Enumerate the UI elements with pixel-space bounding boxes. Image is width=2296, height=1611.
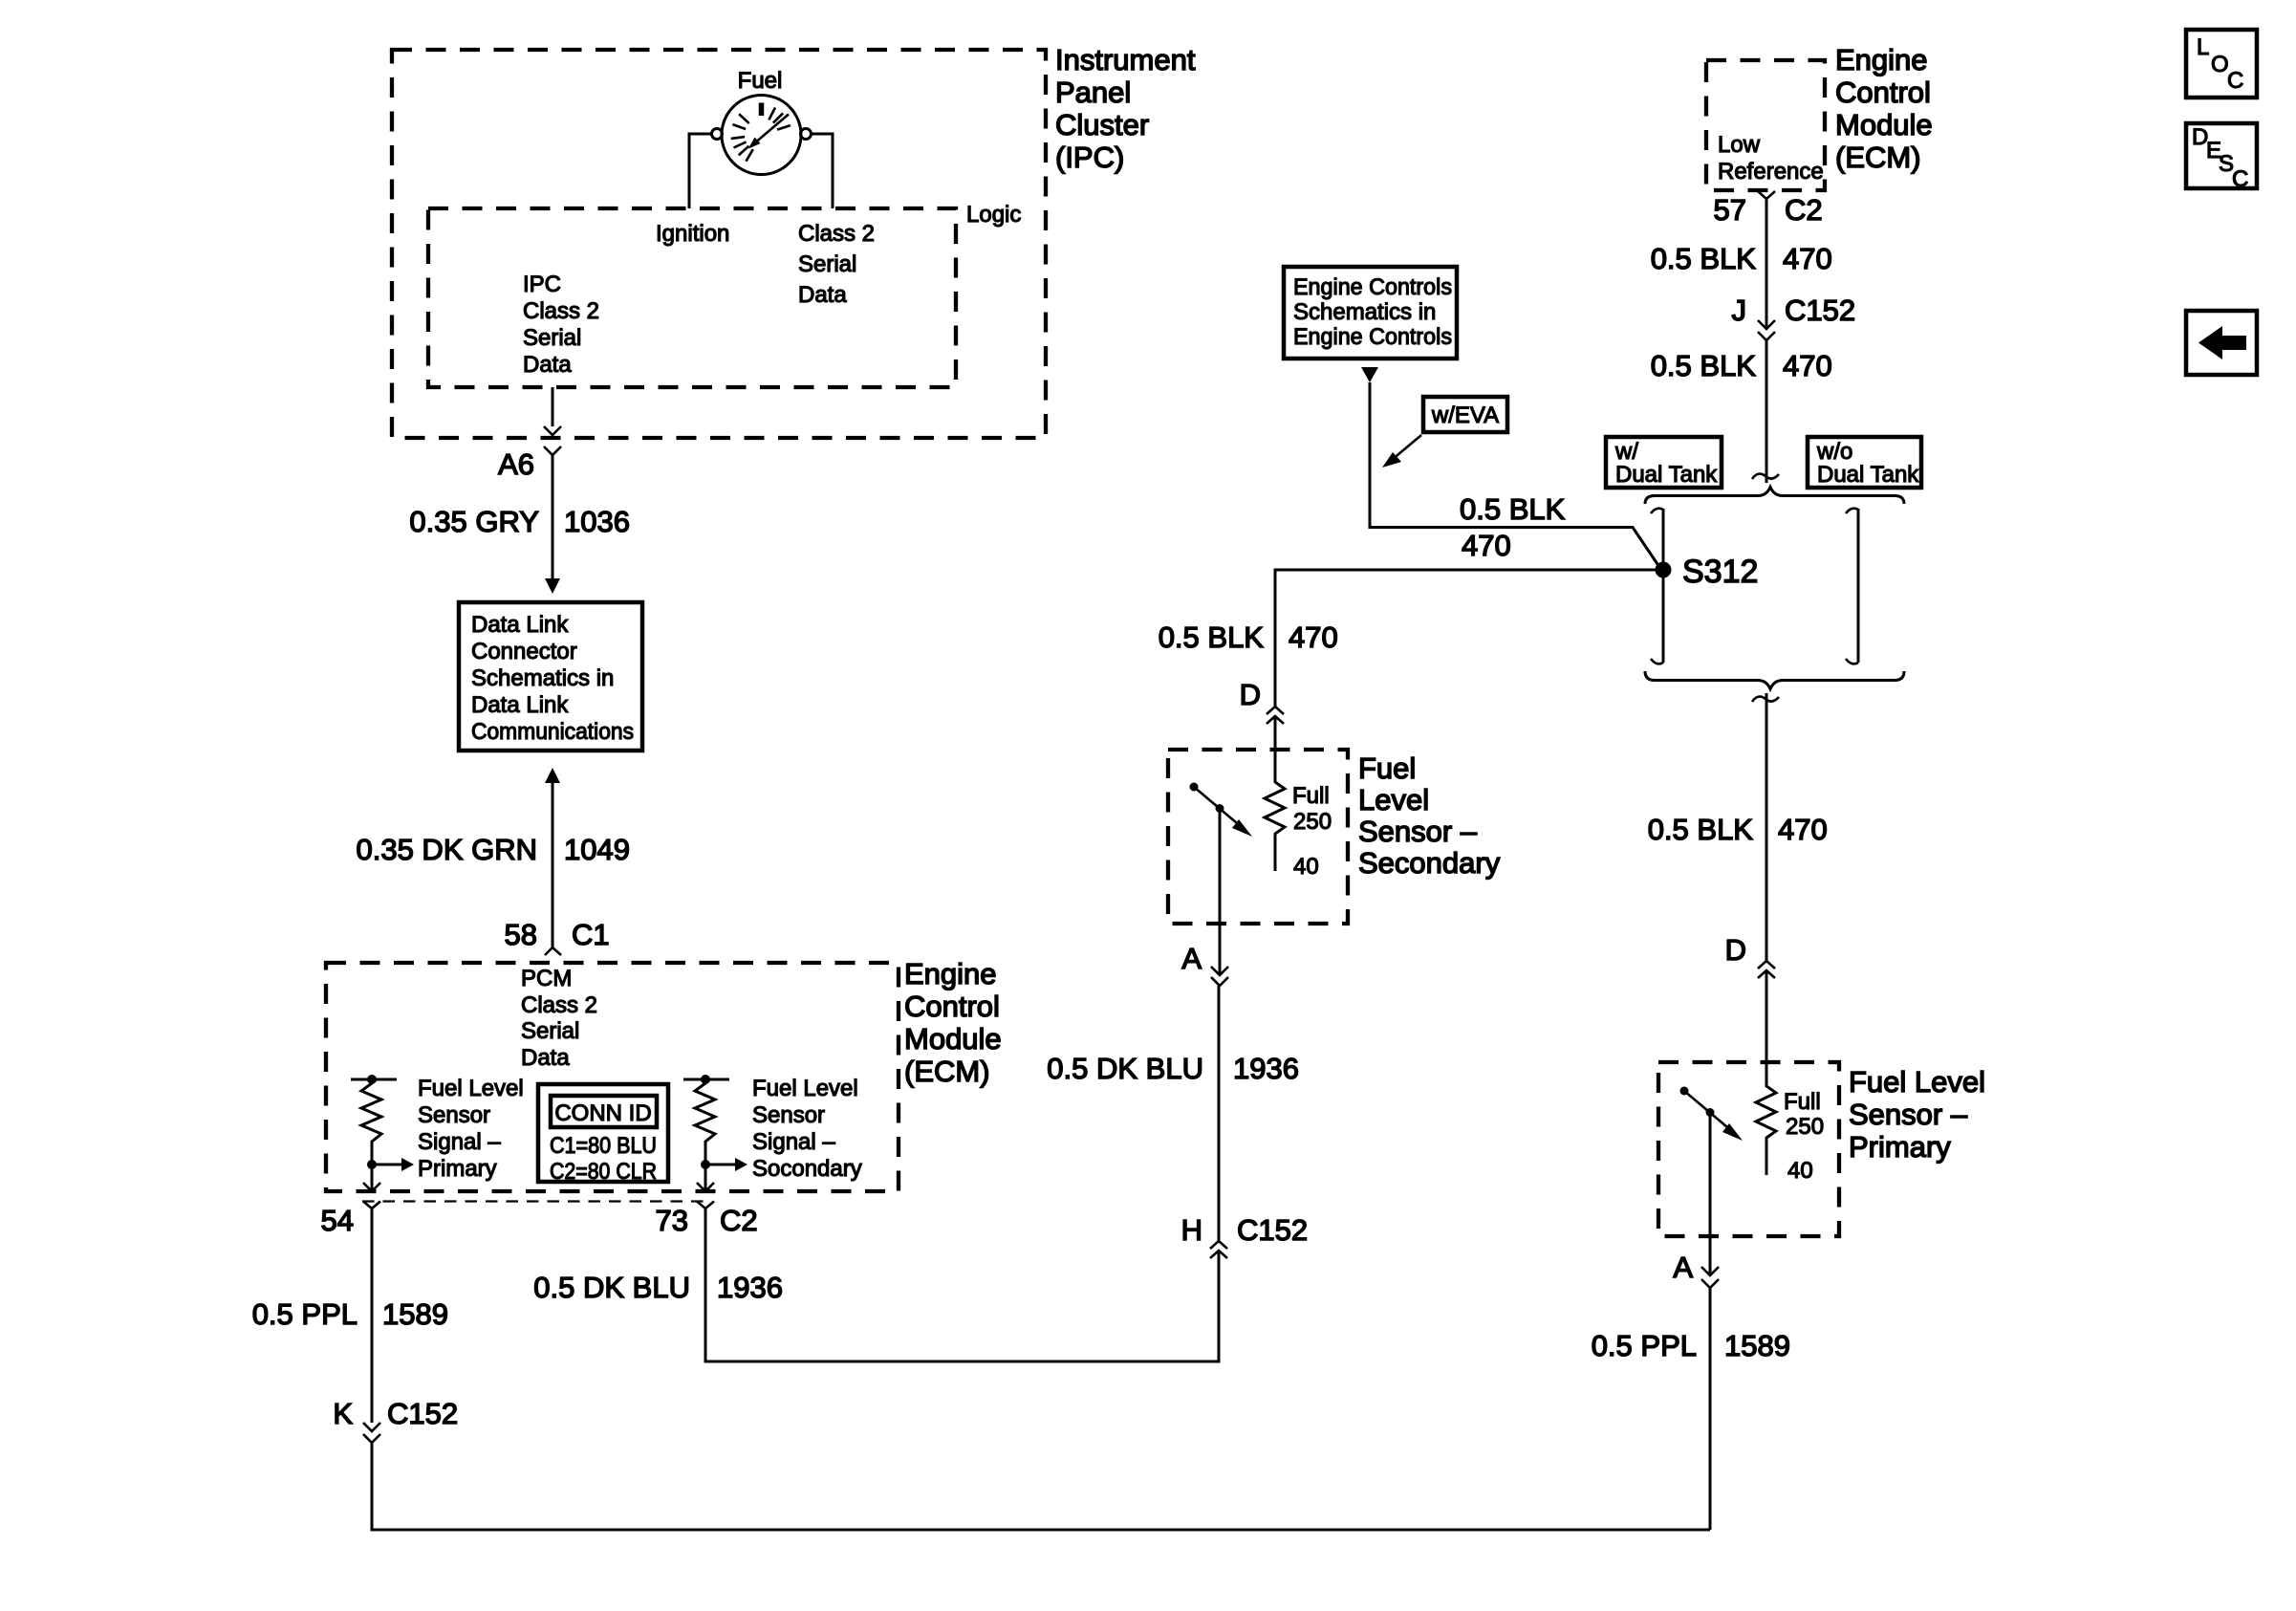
svg-text:0.5 BLK: 0.5 BLK bbox=[1460, 492, 1566, 526]
svg-text:1936: 1936 bbox=[1233, 1052, 1299, 1085]
svg-text:C152: C152 bbox=[1237, 1213, 1308, 1247]
pin 57 C2 connector cup bbox=[1714, 191, 1823, 227]
legend box: LOC bbox=[2186, 30, 2257, 98]
svg-text:K: K bbox=[333, 1397, 353, 1430]
connector H C152 inline chevrons bbox=[1181, 1213, 1309, 1258]
svg-text:S312: S312 bbox=[1682, 554, 1758, 590]
svg-text:C1=80 BLU: C1=80 BLU bbox=[550, 1133, 657, 1159]
wire: bottom run from K C152 to primary sensor pin A bbox=[372, 1443, 1710, 1530]
svg-text:A: A bbox=[1181, 942, 1202, 975]
wire: 0.35 DK GRN 1049 from pin 58 up to data link box bbox=[356, 768, 629, 947]
svg-text:58: 58 bbox=[505, 918, 537, 951]
svg-text:Sensor –: Sensor – bbox=[1849, 1098, 1968, 1131]
connector J C152 inline chevrons bbox=[1732, 294, 1856, 340]
svg-text:Data: Data bbox=[523, 352, 572, 378]
svg-text:J: J bbox=[1732, 294, 1747, 327]
svg-text:Signal –: Signal – bbox=[752, 1129, 835, 1155]
sensor box: Fuel Level Sensor Primary bbox=[1658, 1062, 1985, 1236]
resistor: fuel level sensor signal secondary (in ECM) bbox=[683, 1075, 862, 1191]
svg-text:Schematics in: Schematics in bbox=[1293, 299, 1436, 325]
svg-text:IPC: IPC bbox=[523, 272, 561, 297]
module box: Engine Control Module (ECM) right with Low Reference bbox=[1706, 43, 1933, 190]
CONN ID table box bbox=[538, 1084, 668, 1185]
svg-text:470: 470 bbox=[1462, 529, 1511, 562]
svg-text:0.35 GRY: 0.35 GRY bbox=[409, 505, 539, 538]
wire: 0.5 PPL 1589 from pin 54 down bbox=[252, 1208, 448, 1423]
resistor: secondary sender element Full 250 / 40 bbox=[1265, 716, 1332, 880]
svg-text:O: O bbox=[2211, 52, 2229, 77]
svg-text:Control: Control bbox=[904, 990, 1000, 1023]
wire: gauge right terminal to Logic box bbox=[812, 134, 834, 208]
svg-text:Control: Control bbox=[1835, 76, 1931, 109]
svg-text:Schematics in: Schematics in bbox=[471, 665, 614, 691]
svg-text:CONN ID: CONN ID bbox=[554, 1100, 651, 1126]
svg-text:470: 470 bbox=[1289, 620, 1338, 654]
callout box: w/o Dual Tank bbox=[1808, 437, 1921, 488]
svg-text:D: D bbox=[1240, 678, 1261, 711]
svg-text:Signal –: Signal – bbox=[418, 1129, 501, 1155]
pin A chevrons at secondary sensor bbox=[1181, 942, 1228, 986]
wire: IPC serial data down to pin A6 bbox=[544, 387, 561, 435]
svg-text:Engine Controls: Engine Controls bbox=[1293, 324, 1452, 350]
svg-text:C2=80 CLR: C2=80 CLR bbox=[550, 1159, 657, 1185]
connector C2 thin dashed line under ECM bbox=[362, 1200, 706, 1202]
svg-text:Dual Tank: Dual Tank bbox=[1615, 462, 1718, 488]
svg-text:C2: C2 bbox=[1785, 193, 1823, 227]
wire: 0.5 DK BLU 1936 from H C152 up to secondary sensor pin A bbox=[1047, 986, 1299, 1241]
gauge needle bbox=[750, 115, 789, 147]
svg-text:Primary: Primary bbox=[1849, 1130, 1951, 1164]
wire: 0.5 BLK 470 from J C152 down to brace bbox=[1651, 340, 1832, 483]
svg-text:Full: Full bbox=[1784, 1089, 1821, 1115]
pin 73 C2 connector cup bbox=[656, 1202, 758, 1238]
bracket: w/ dual tank path bbox=[1651, 509, 1663, 664]
svg-text:Class 2: Class 2 bbox=[798, 221, 875, 247]
svg-text:Level: Level bbox=[1358, 783, 1429, 816]
svg-text:w/EVA: w/EVA bbox=[1431, 403, 1499, 428]
svg-text:Fuel Level: Fuel Level bbox=[1849, 1065, 1985, 1099]
fuel gauge meter in IPC bbox=[712, 68, 812, 175]
svg-text:0.5 BLK: 0.5 BLK bbox=[1648, 813, 1754, 846]
svg-text:Ignition: Ignition bbox=[656, 221, 729, 247]
svg-text:Fuel Level: Fuel Level bbox=[752, 1076, 858, 1101]
svg-text:Fuel: Fuel bbox=[738, 68, 783, 94]
pin 58 C1 connector cup bbox=[505, 918, 610, 955]
svg-text:0.5 BLK: 0.5 BLK bbox=[1651, 242, 1757, 275]
pin D chevrons at secondary sensor bbox=[1240, 678, 1284, 724]
svg-text:Logic: Logic bbox=[966, 202, 1021, 228]
wire: gauge left terminal to Logic box bbox=[689, 134, 712, 208]
svg-text:Panel: Panel bbox=[1055, 76, 1131, 109]
potentiometer wiper arm in primary sensor bbox=[1680, 1087, 1744, 1276]
wire: 0.5 BLK 470 from pin 57 to J C152 bbox=[1651, 199, 1832, 329]
svg-text:Dual Tank: Dual Tank bbox=[1817, 462, 1919, 488]
svg-text:Connector: Connector bbox=[471, 639, 577, 664]
svg-text:Module: Module bbox=[904, 1022, 1002, 1056]
svg-text:Engine: Engine bbox=[1835, 43, 1928, 76]
reference box: Data Link Connector Schematics bbox=[459, 602, 642, 751]
svg-text:0.35 DK GRN: 0.35 DK GRN bbox=[356, 833, 537, 866]
wire: 0.5 DK BLU 1936 from pin 73 down right and up to H C152 bbox=[533, 1208, 1219, 1361]
svg-text:Fuel: Fuel bbox=[1358, 751, 1416, 785]
wire break squiggle above brace bbox=[1752, 474, 1779, 479]
pin A6 connector cup bbox=[498, 446, 561, 481]
svg-text:Class 2: Class 2 bbox=[521, 992, 597, 1018]
potentiometer wiper arm in secondary sensor bbox=[1190, 783, 1253, 976]
svg-text:C2: C2 bbox=[720, 1204, 758, 1237]
pin D chevrons at primary sensor bbox=[1725, 933, 1775, 978]
svg-text:0.5 PPL: 0.5 PPL bbox=[1592, 1329, 1697, 1362]
svg-text:0.5 DK BLU: 0.5 DK BLU bbox=[1047, 1052, 1203, 1085]
svg-text:Engine Controls: Engine Controls bbox=[1293, 274, 1452, 300]
svg-text:250: 250 bbox=[1786, 1114, 1824, 1140]
svg-text:Serial: Serial bbox=[523, 325, 581, 351]
bracket: w/o dual tank path bbox=[1846, 509, 1858, 664]
svg-text:Data: Data bbox=[521, 1045, 570, 1071]
svg-text:Sensor: Sensor bbox=[418, 1102, 490, 1128]
wire: 0.35 GRY 1036 from A6 to data link box bbox=[409, 455, 630, 594]
svg-text:40: 40 bbox=[1293, 854, 1319, 880]
svg-text:Data Link: Data Link bbox=[471, 612, 569, 638]
svg-text:H: H bbox=[1181, 1213, 1202, 1247]
svg-text:Communications: Communications bbox=[471, 719, 634, 745]
svg-text:C: C bbox=[2232, 166, 2248, 192]
svg-text:Reference: Reference bbox=[1718, 159, 1824, 185]
svg-text:1049: 1049 bbox=[564, 833, 630, 866]
svg-text:L: L bbox=[2197, 34, 2209, 60]
svg-text:Serial: Serial bbox=[798, 251, 856, 277]
svg-text:C: C bbox=[2227, 68, 2243, 94]
wire: 0.5 BLK 470 from S312 branch down to pin D bbox=[1159, 570, 1656, 707]
closing brace for dual tank alternatives bbox=[1645, 671, 1904, 689]
pin 54 connector cup bbox=[321, 1202, 380, 1238]
svg-text:1936: 1936 bbox=[717, 1271, 783, 1304]
svg-text:Class 2: Class 2 bbox=[523, 298, 599, 324]
svg-text:0.5 BLK: 0.5 BLK bbox=[1651, 349, 1757, 382]
svg-text:1589: 1589 bbox=[382, 1297, 448, 1331]
svg-text:A: A bbox=[1673, 1251, 1693, 1284]
svg-text:Module: Module bbox=[1835, 108, 1933, 142]
svg-text:(ECM): (ECM) bbox=[904, 1055, 990, 1088]
svg-text:470: 470 bbox=[1783, 349, 1832, 382]
connector K C152 inline chevrons bbox=[333, 1397, 458, 1443]
callout box: w/ Dual Tank bbox=[1606, 437, 1722, 488]
svg-text:57: 57 bbox=[1714, 193, 1746, 227]
svg-text:1589: 1589 bbox=[1724, 1329, 1790, 1362]
svg-text:Sensor –: Sensor – bbox=[1358, 815, 1478, 848]
svg-text:Instrument: Instrument bbox=[1055, 43, 1196, 76]
svg-text:Cluster: Cluster bbox=[1055, 108, 1149, 142]
svg-text:Primary: Primary bbox=[418, 1156, 497, 1182]
svg-text:54: 54 bbox=[321, 1204, 354, 1237]
svg-text:PCM: PCM bbox=[521, 966, 572, 991]
resistor: primary sender element Full 250 / 40 bbox=[1756, 970, 1824, 1184]
svg-text:250: 250 bbox=[1293, 809, 1332, 835]
svg-text:Socondary: Socondary bbox=[752, 1156, 862, 1182]
logic box inside IPC bbox=[428, 202, 1021, 387]
resistor: fuel level sensor signal primary (in ECM) bbox=[351, 1075, 524, 1191]
wire: w/EVA branch 0.5 BLK 470 to S312 bbox=[1361, 367, 1659, 567]
svg-text:Serial: Serial bbox=[521, 1018, 579, 1044]
svg-text:73: 73 bbox=[656, 1204, 688, 1237]
reference box: Engine Controls Schematics bbox=[1284, 267, 1457, 359]
svg-text:Sensor: Sensor bbox=[752, 1102, 825, 1128]
wire: 0.5 BLK 470 below braces down to pin D primary bbox=[1648, 693, 1828, 961]
svg-text:0.5 DK BLU: 0.5 DK BLU bbox=[533, 1271, 690, 1304]
sensor box: Fuel Level Sensor Secondary bbox=[1168, 750, 1501, 924]
svg-text:C152: C152 bbox=[387, 1397, 458, 1430]
callout box: w/EVA bbox=[1382, 397, 1507, 468]
svg-text:40: 40 bbox=[1787, 1158, 1813, 1184]
svg-text:Fuel Level: Fuel Level bbox=[418, 1076, 524, 1101]
svg-text:470: 470 bbox=[1778, 813, 1828, 846]
svg-text:1036: 1036 bbox=[564, 505, 630, 538]
svg-text:Low: Low bbox=[1718, 132, 1761, 158]
svg-text:D: D bbox=[1725, 933, 1746, 967]
svg-text:w/: w/ bbox=[1614, 439, 1638, 465]
svg-text:0.5 BLK: 0.5 BLK bbox=[1159, 620, 1265, 654]
svg-text:A6: A6 bbox=[498, 447, 534, 481]
pin A chevrons at primary sensor bbox=[1673, 1251, 1719, 1288]
svg-text:(ECM): (ECM) bbox=[1835, 141, 1921, 174]
svg-text:0.5 PPL: 0.5 PPL bbox=[252, 1297, 357, 1331]
wire break squiggle below brace bbox=[1752, 697, 1779, 702]
wire: 0.5 PPL 1589 from pin A down to bottom run bbox=[1592, 1288, 1790, 1530]
svg-text:Secondary: Secondary bbox=[1358, 846, 1501, 880]
splice S312 bbox=[1656, 554, 1759, 590]
module box: Engine Control Module (ECM) left bbox=[326, 957, 1002, 1191]
svg-text:C1: C1 bbox=[572, 918, 610, 951]
svg-text:Data: Data bbox=[798, 282, 847, 308]
opening brace for dual tank alternatives bbox=[1645, 488, 1904, 505]
svg-text:Engine: Engine bbox=[904, 957, 997, 991]
svg-text:Data Link: Data Link bbox=[471, 692, 569, 718]
svg-text:C152: C152 bbox=[1785, 294, 1855, 327]
svg-text:(IPC): (IPC) bbox=[1055, 141, 1124, 174]
svg-text:470: 470 bbox=[1783, 242, 1832, 275]
svg-text:w/o: w/o bbox=[1816, 439, 1852, 465]
svg-text:Full: Full bbox=[1292, 783, 1330, 809]
legend box: DESC bbox=[2186, 123, 2257, 192]
legend box: back arrow bbox=[2186, 311, 2257, 375]
module box: Instrument Panel Cluster (IPC) bbox=[392, 43, 1196, 438]
